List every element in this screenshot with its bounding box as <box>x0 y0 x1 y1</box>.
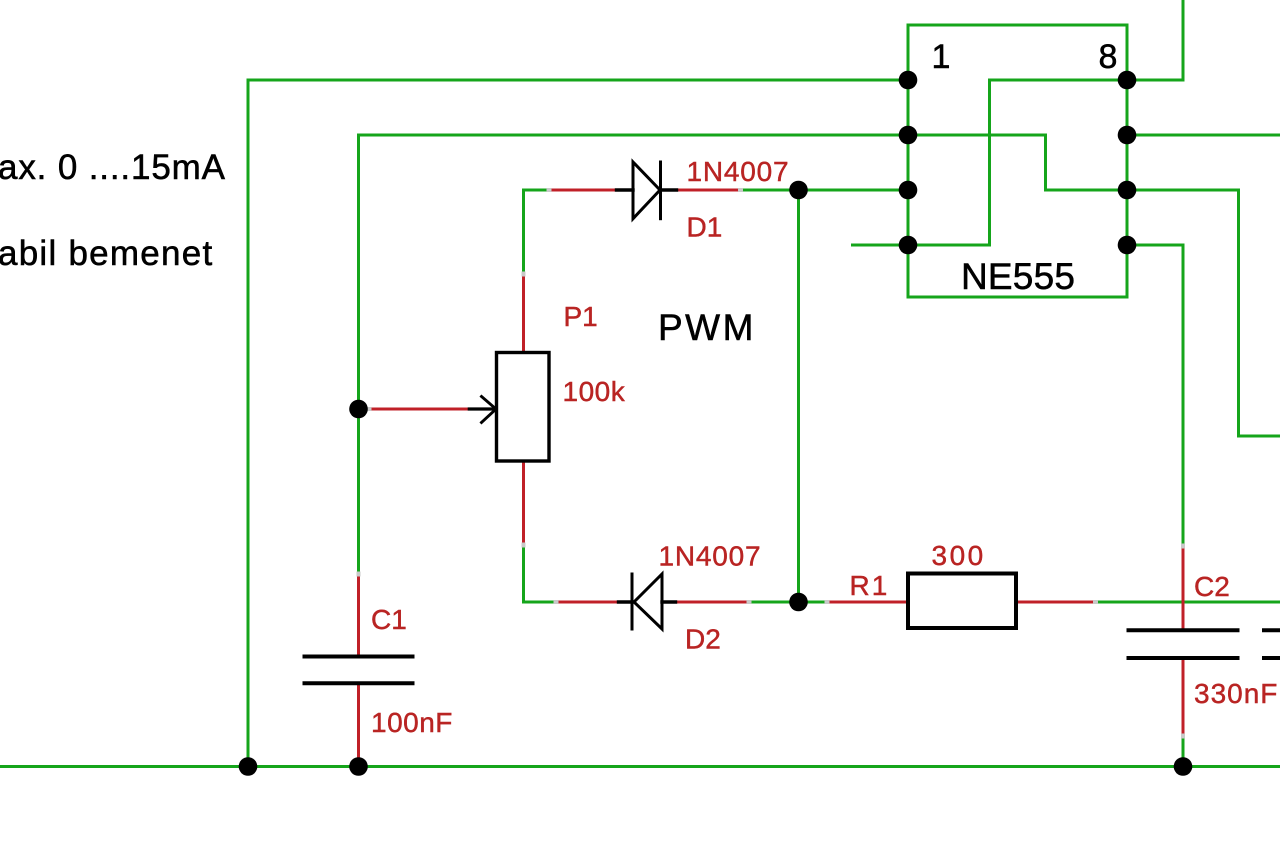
potentiometer P1 wiper arrow shaft <box>469 407 494 410</box>
wire: horizontal y190 to pin 6 <box>1046 189 1128 192</box>
wire: P1 top red lead <box>522 274 525 353</box>
svg-text:ax. 0 ....15mA: ax. 0 ....15mA <box>0 148 226 187</box>
wire: pin4 internal horizontal <box>908 244 990 247</box>
pin 3 junction dot <box>899 181 918 200</box>
wire: internal vertical x989.5 <box>988 80 991 245</box>
wire: P1 bottom red lead <box>522 461 525 545</box>
wire: C1 top red lead <box>357 574 360 655</box>
capacitor C1 top plate <box>305 655 413 659</box>
wire: D2 right green to R1 <box>749 601 827 604</box>
pin-end tick P1 wiper <box>367 407 372 411</box>
pin 5 junction dot <box>1118 236 1137 255</box>
pin 8 junction dot <box>1118 71 1137 90</box>
wire: vertical x1045.5 inside IC <box>1044 135 1047 190</box>
wire: right vertical x1238.5 <box>1237 190 1240 436</box>
pin 7 junction dot <box>1118 126 1137 145</box>
pin-end tick P1 bottom <box>522 543 526 548</box>
wire: pin6 right horizontal <box>1127 189 1239 192</box>
wire: +V top-left vertical <box>247 80 250 767</box>
wire: pin7 to right edge <box>1127 134 1280 137</box>
capacitor C3 partial top plate <box>1264 628 1280 632</box>
wire: C2 bottom green to rail <box>1182 736 1185 767</box>
wire: D2 left red lead <box>556 601 619 604</box>
diode D2 cathode black lead <box>619 600 633 603</box>
wire: D1 anode red lead <box>549 189 617 192</box>
diode D2 anode black lead <box>662 600 676 603</box>
wire: vertical D1-D2 junction x798.5 <box>797 190 800 602</box>
svg-text:R1: R1 <box>850 570 890 601</box>
diode D2 triangle <box>634 574 662 629</box>
resistor R1 body <box>908 574 1016 629</box>
wire: R1 output green to right edge <box>1096 601 1280 604</box>
svg-text:D2: D2 <box>685 624 721 655</box>
svg-text:abil bemenet: abil bemenet <box>0 234 213 273</box>
svg-text:100k: 100k <box>563 376 626 407</box>
capacitor C3 partial bottom plate <box>1264 656 1280 660</box>
potentiometer P1 body <box>497 353 550 462</box>
wire: pin 4 stub <box>853 244 909 247</box>
wire: ground rail <box>0 765 1280 768</box>
pin-end tick R1 right <box>1093 600 1098 604</box>
op-amp U1 NE555 body box <box>908 25 1127 297</box>
wire: pin8 to top right corner <box>1127 79 1183 82</box>
pin-end tick D1 right <box>738 188 743 192</box>
diode D2 cathode bar <box>631 574 634 629</box>
wire: D2 left green stub <box>524 601 557 604</box>
pin-end tick D2 right <box>747 600 752 604</box>
capacitor C1 bottom plate <box>305 681 413 685</box>
wire: P1 bottom corner vertical <box>522 545 525 602</box>
pin 6 junction dot <box>1118 181 1137 200</box>
node: C2 rail junction <box>1174 757 1193 776</box>
wire: wiper red shaft <box>369 408 469 411</box>
wire: top horizontal to pin 1 <box>248 79 908 82</box>
wire: C2 top red lead <box>1182 546 1185 629</box>
node: D2 output junction <box>789 593 808 612</box>
wire: D1 anode green stub <box>524 189 550 192</box>
svg-text:1N4007: 1N4007 <box>659 541 762 572</box>
svg-text:1N4007: 1N4007 <box>687 156 790 187</box>
pin 2 junction dot <box>899 126 918 145</box>
wire: internal horizontal y80 to pin8 <box>990 79 1128 82</box>
wire: pin5 to C2 corner <box>1127 244 1183 247</box>
diode D1 cathode black lead <box>661 188 677 191</box>
potentiometer P1 wiper arrowhead <box>482 397 497 423</box>
svg-text:C2: C2 <box>1194 571 1230 602</box>
pin-end tick P1 top <box>522 272 526 277</box>
pin-end tick R1 left <box>825 600 830 604</box>
wire: P1 top corner vertical <box>522 190 525 274</box>
svg-text:PWM: PWM <box>658 307 756 348</box>
svg-text:D1: D1 <box>687 212 723 243</box>
wire: C2 top vertical green <box>1182 245 1185 546</box>
pin-end tick C2 bottom <box>1181 734 1185 739</box>
svg-text:300: 300 <box>932 540 986 571</box>
wire: R1 left red lead <box>827 601 908 604</box>
node: wiper junction <box>349 400 368 419</box>
pin-end tick D1 left <box>547 188 552 192</box>
wire: top right vertical to edge <box>1182 0 1185 80</box>
capacitor C2 top plate <box>1129 628 1238 632</box>
pin-end tick C1 top <box>357 572 361 577</box>
svg-text:NE555: NE555 <box>961 256 1075 297</box>
node: rail left junction <box>239 757 258 776</box>
svg-text:P1: P1 <box>564 301 598 332</box>
wire: D1 cathode red lead <box>677 189 741 192</box>
wire: D1 cathode to pin 3 <box>741 189 909 192</box>
wire: wiper green stub <box>359 408 370 411</box>
wire: C2 bottom red lead <box>1182 660 1185 736</box>
pin-end tick D2 left <box>554 600 559 604</box>
node: D1 output junction <box>789 181 808 200</box>
svg-text:C1: C1 <box>371 604 407 635</box>
diode D1 cathode bar <box>659 162 662 219</box>
wire: C1 bottom red lead <box>357 685 360 764</box>
pin-end tick C2 top <box>1181 544 1185 549</box>
wire: second vertical x358 <box>357 135 360 574</box>
svg-text:1: 1 <box>932 38 951 76</box>
svg-text:8: 8 <box>1099 38 1118 76</box>
pin 1 junction dot <box>899 71 918 90</box>
diode D1 anode black lead <box>617 188 634 191</box>
pin 4 junction dot <box>899 236 918 255</box>
capacitor C2 bottom plate <box>1129 656 1238 660</box>
node: C1 rail junction <box>349 757 368 776</box>
wire: R1 right red lead <box>1016 601 1094 604</box>
wire: D2 right red lead <box>676 601 750 604</box>
wire: y436 to right edge <box>1239 435 1280 438</box>
wire: horizontal y135 to inside IC <box>359 134 1046 137</box>
svg-text:330nF: 330nF <box>1194 678 1278 709</box>
diode D1 triangle <box>633 162 660 219</box>
svg-text:100nF: 100nF <box>371 707 453 738</box>
